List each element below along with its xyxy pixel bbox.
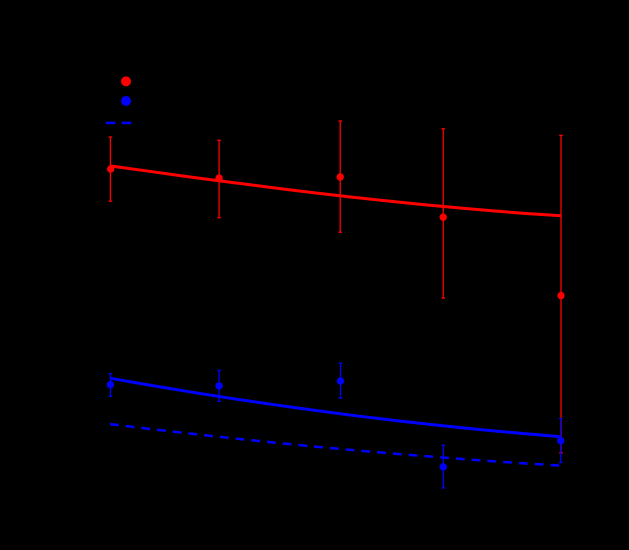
- red error bar 4: [441, 129, 445, 298]
- blue error bar 1: [109, 374, 113, 397]
- red data point 4: [440, 214, 447, 221]
- blue error bar 2: [217, 370, 221, 401]
- blue solid fit curve: [110, 378, 561, 437]
- blue error bar 4: [442, 445, 446, 488]
- red error bar 1: [109, 137, 113, 201]
- blue data point 1: [107, 381, 114, 388]
- blue data point 5: [557, 437, 564, 444]
- blue error bar 3: [339, 363, 343, 398]
- blue dashed model curve: [110, 424, 561, 466]
- red data point 3: [337, 173, 344, 180]
- blue data point 4: [440, 463, 447, 470]
- red fit curve: [110, 166, 561, 216]
- red error bar 3: [338, 121, 342, 232]
- legend blue marker: [121, 96, 131, 106]
- blue error bar 5: [559, 419, 563, 463]
- blue data point 3: [337, 377, 344, 384]
- red error bar 5: [559, 135, 563, 453]
- red data point 5: [557, 292, 564, 299]
- blue data point 2: [215, 382, 222, 389]
- red data point 1: [107, 165, 114, 172]
- red data point 2: [215, 174, 222, 181]
- legend red marker: [121, 76, 131, 86]
- red error bar 2: [217, 140, 221, 217]
- legend dashed line sample: [106, 122, 132, 125]
